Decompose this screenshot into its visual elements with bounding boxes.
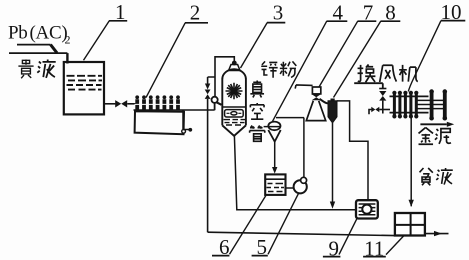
- recirculation loop over column top: [215, 57, 234, 97]
- funnel 7 neck: [312, 87, 320, 94]
- blower 9: [356, 200, 378, 218]
- pipe: cartridge 8 drain with arrow: [332, 123, 334, 202]
- column top nozzle: [229, 65, 240, 71]
- reference numeral 2: [190, 1, 201, 25]
- pipe: long left drop line: [207, 99, 209, 232]
- filter press 10 end plates: [432, 93, 445, 117]
- pipe: column 3 bottom drain down and right to pump 9: [234, 136, 356, 210]
- filter press 10 needle valve: [379, 88, 386, 90]
- filter press 10 inlet pipe with valve: [369, 110, 372, 115]
- tank 6: [265, 174, 285, 195]
- valve on tank outlet: [115, 100, 127, 107]
- pipe: bottom long run to settler 11: [208, 232, 395, 235]
- filter cartridge 8: [320, 99, 329, 104]
- reference numeral 8: [385, 0, 396, 24]
- pipe: cyclone underflow into tank 6: [274, 142, 276, 168]
- reference numeral 9: [328, 236, 339, 260]
- svg-text:2: 2: [190, 1, 201, 25]
- column 3 distributor: [225, 110, 244, 117]
- column 3 liquid dashes: [224, 120, 246, 125]
- label 真空管 (vacuum tube) vertical: [250, 81, 265, 142]
- reference numeral 11: [364, 236, 384, 260]
- filter press 2 body: [135, 111, 184, 134]
- tank 1 (storage tank): [64, 62, 104, 114]
- drain stub with cap below pipe: [183, 110, 189, 130]
- filter press 10 plates: [394, 94, 416, 115]
- label Pb(AC)2: [8, 23, 71, 47]
- reference numeral 1: [115, 0, 126, 24]
- reference numeral 10: [441, 0, 462, 24]
- filter press 10 tie rods: [418, 100, 444, 108]
- filter press 10 rails: [390, 96, 429, 112]
- label 金泥 (gold mud): [419, 128, 451, 145]
- svg-text:Pb: Pb: [8, 23, 27, 44]
- reference numeral 7: [363, 0, 374, 24]
- label 锌粉 (zinc powder): [261, 61, 296, 77]
- label 贫液 (lean solution): [420, 168, 453, 185]
- label 贵液 (rich solution): [18, 60, 55, 79]
- vacuum column 3 shell: [222, 79, 246, 126]
- filter press 2 plates: [137, 99, 178, 110]
- funnel 7 cone: [306, 101, 325, 121]
- eductor fitting at column inlet: [212, 97, 218, 103]
- svg-text:(AC): (AC): [30, 23, 68, 44]
- label 换风机 (air exchanger): [358, 65, 418, 83]
- pipe: vapour line to funnel 7: [295, 85, 312, 89]
- filter press 2 drain cock: [182, 129, 186, 133]
- reference numeral 4: [332, 0, 343, 24]
- settler 11 outlet arrow: [425, 233, 449, 235]
- pipe to filter press 2: [127, 103, 136, 105]
- pipe: cartridge 8 top to blower 9: [337, 101, 368, 200]
- pipe: line under 换风机 label down to needle valve: [354, 83, 383, 88]
- pipe: plate baseline continuing right: [134, 109, 215, 111]
- pipe: filter 10 drop to settler 11: [410, 114, 412, 206]
- tank 1 liquid dashes: [67, 76, 103, 90]
- svg-text:3: 3: [273, 0, 284, 24]
- pump 5: [294, 180, 307, 193]
- pipe: tank 1 outlet: [104, 103, 115, 105]
- column 3 starburst packing: [226, 83, 243, 99]
- recirc left branch with arrow and valve: [208, 77, 215, 84]
- hydrocyclone 4: [276, 117, 304, 119]
- reference numeral 3: [273, 0, 284, 24]
- funnel 7 valve: [312, 94, 321, 100]
- pipe: pump 5 riser to cyclone 4: [303, 118, 305, 178]
- reference numeral 6: [219, 235, 230, 259]
- pipe: feed duct to tank 1: [17, 44, 51, 46]
- pipe: tank 6 to pump 5 suction: [286, 187, 294, 189]
- svg-text:2: 2: [65, 33, 71, 47]
- reference numeral 5: [256, 235, 267, 259]
- 金泥 output arrow line: [420, 123, 446, 125]
- settler 11: [395, 213, 425, 236]
